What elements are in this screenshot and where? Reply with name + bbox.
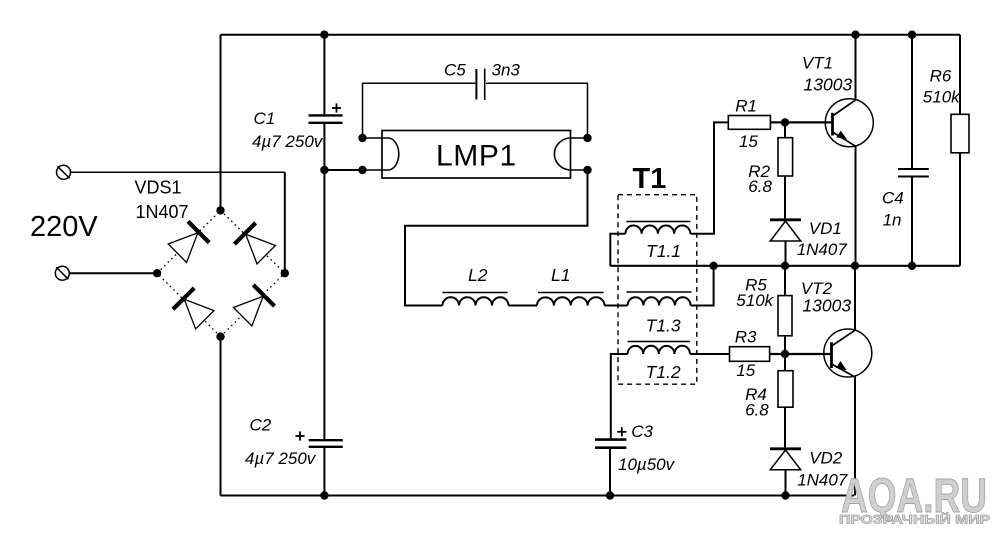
svg-text:13003: 13003 [804,74,853,94]
svg-text:C5: C5 [444,61,466,80]
svg-text:C4: C4 [882,189,904,208]
svg-text:1n: 1n [883,211,902,230]
svg-text:15: 15 [739,132,758,151]
svg-text:VT1: VT1 [802,53,833,72]
svg-text:6.8: 6.8 [745,401,769,420]
svg-text:R3: R3 [735,328,757,347]
svg-text:ПРОЗРАЧНЫЙ МИР: ПРОЗРАЧНЫЙ МИР [839,512,990,527]
svg-text:10µ50v: 10µ50v [618,455,676,474]
svg-text:R1: R1 [735,96,757,115]
svg-text:4µ7 250v: 4µ7 250v [245,449,317,468]
svg-text:C2: C2 [250,416,272,435]
svg-text:1N407: 1N407 [136,202,189,222]
svg-text:3n3: 3n3 [492,61,521,80]
svg-text:VD2: VD2 [809,448,843,467]
svg-text:VD1: VD1 [809,219,842,238]
svg-text:VDS1: VDS1 [135,178,182,198]
svg-text:C3: C3 [631,422,653,441]
svg-text:1N407: 1N407 [797,240,848,259]
svg-text:C1: C1 [254,109,276,128]
svg-text:15: 15 [736,361,755,380]
svg-text:L1: L1 [551,265,570,285]
svg-text:T1.3: T1.3 [646,316,681,336]
svg-text:T1: T1 [633,163,667,195]
svg-text:R6: R6 [930,67,952,86]
svg-text:510k: 510k [736,291,774,310]
svg-text:6.8: 6.8 [748,177,772,196]
svg-text:4µ7 250v: 4µ7 250v [252,132,324,151]
svg-text:510k: 510k [923,88,961,107]
svg-text:L2: L2 [468,265,488,285]
svg-text:T1.1: T1.1 [646,241,681,261]
svg-text:T1.2: T1.2 [646,362,681,382]
svg-text:LMP1: LMP1 [436,140,517,173]
svg-text:220V: 220V [30,211,98,243]
svg-text:13003: 13003 [802,295,851,315]
